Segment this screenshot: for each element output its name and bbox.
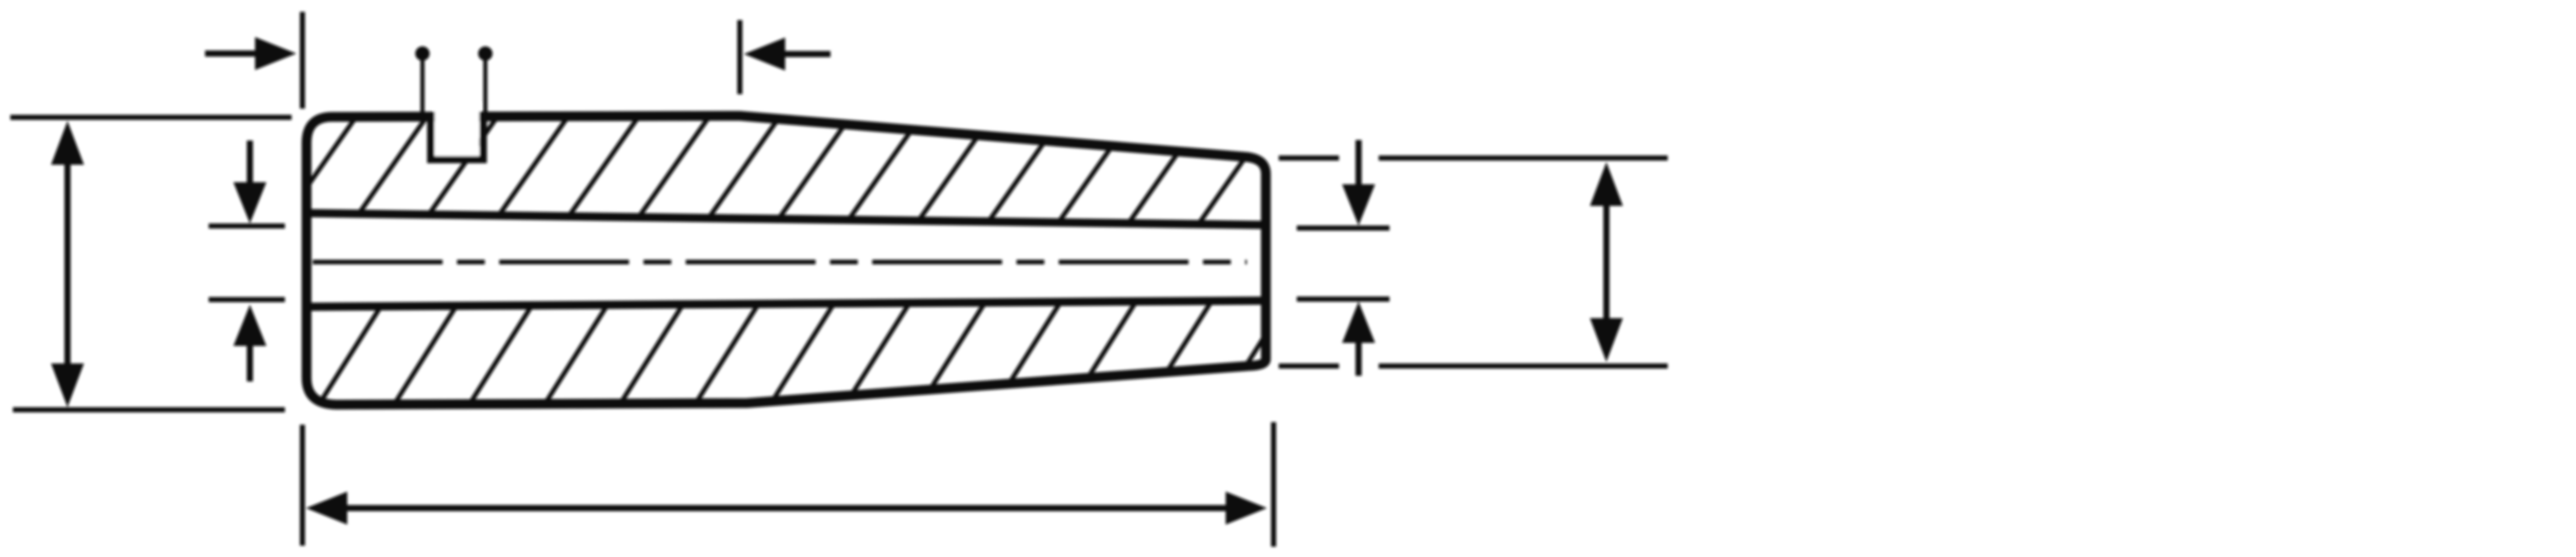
dimension length line: [306, 492, 1267, 525]
tick wall top left: [209, 223, 285, 229]
arrow up to bore bottom right: [1342, 302, 1375, 376]
leader line right: [483, 58, 487, 117]
arrow to taper start: [744, 38, 831, 71]
bore bottom line: [309, 301, 1263, 307]
arrow down to wall top left: [233, 141, 266, 223]
extension line length right: [1271, 422, 1276, 547]
leader line left: [420, 58, 425, 117]
extension line right bottom: [1279, 363, 1339, 369]
arrow up to wall bottom left: [233, 305, 266, 381]
leader dot left: [415, 46, 430, 61]
bore top line: [309, 213, 1263, 225]
centerline: [313, 260, 1247, 265]
handle outline side view: [307, 116, 1266, 405]
extension line right top: [1279, 155, 1339, 161]
extension line length left: [300, 425, 305, 546]
hatching bottom wall: [314, 293, 1367, 412]
tick bore bottom right: [1297, 297, 1389, 302]
slot erase patch: [435, 103, 479, 156]
slot in top wall: [431, 112, 483, 160]
extension line height bottom: [13, 407, 285, 412]
extension tick taper start: [737, 20, 742, 94]
tick bore top right: [1297, 225, 1389, 231]
dimension height line: [51, 121, 84, 407]
dimension right end diameter: [1590, 162, 1623, 362]
tick wall bottom left: [209, 297, 285, 302]
leader dot right: [478, 46, 493, 61]
arrow to left face: [205, 37, 296, 70]
arrow down to bore top right: [1342, 140, 1375, 225]
extension line height top: [10, 115, 292, 120]
extension line left face top: [300, 12, 305, 109]
hatching top wall: [268, 103, 1354, 242]
